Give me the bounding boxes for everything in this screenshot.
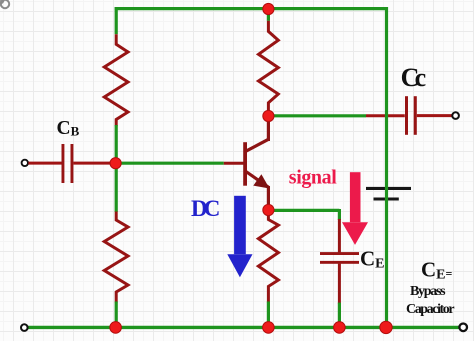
- wire: base node to transistor (green): [116, 162, 224, 165]
- capacitor CE: [320, 252, 359, 264]
- capacitor CB: [62, 144, 74, 183]
- node: ground rail left junction: [110, 322, 122, 334]
- node: top rail junction: [263, 3, 274, 14]
- signal arrow (crimson): [342, 172, 368, 245]
- node: ground rail right junction: [380, 321, 392, 333]
- svg-text:Capacitor: Capacitor: [406, 302, 455, 317]
- resistor RC (collector resistor): [259, 21, 279, 112]
- resistor R1 (upper bias resistor): [104, 34, 128, 126]
- resistor R2 (lower bias resistor): [104, 212, 128, 303]
- svg-text:DC: DC: [191, 196, 220, 221]
- wire: down to CE (green elbow): [338, 209, 341, 220]
- wire: left branch mid green: [115, 125, 118, 212]
- transistor Q1 (NPN): [245, 119, 268, 211]
- wire: right rail (green): [385, 7, 388, 327]
- wire: RE to ground rail (green): [267, 302, 270, 328]
- node: ground rail RE junction: [263, 322, 275, 334]
- wire: left branch upper green stub: [115, 7, 118, 34]
- wire: left branch lower green: [115, 302, 118, 328]
- node: emitter junction: [263, 204, 274, 215]
- wire: Cc to output terminal: [417, 114, 452, 117]
- wire: collector red lead to Cc: [366, 114, 405, 117]
- node: base junction: [110, 158, 121, 169]
- wire: top rail: [115, 7, 387, 10]
- svg-text:signal: signal: [289, 167, 337, 189]
- battery plates (DC supply): [366, 187, 411, 201]
- wire: middle branch top green stub: [267, 7, 270, 21]
- wire: emitter node horizontal (green): [268, 209, 339, 212]
- resistor RE (emitter resistor): [258, 214, 278, 303]
- input terminal: [22, 160, 28, 166]
- wire: base lead (dark red): [224, 162, 247, 165]
- wire: CE bottom lead (dark red): [338, 264, 341, 304]
- svg-text:Cc: Cc: [401, 63, 427, 92]
- DC arrow (blue): [227, 196, 252, 277]
- node: collector junction: [263, 110, 274, 121]
- node: ground rail CE junction: [334, 322, 346, 334]
- corner cursor glyph: [0, 0, 9, 8]
- wire: ground rail: [28, 326, 459, 329]
- wire: collector node to Cc (green): [268, 114, 366, 117]
- svg-text:Bypass: Bypass: [410, 284, 446, 299]
- output terminal (collector): [452, 112, 459, 119]
- wire: down to CE (dark red): [338, 219, 341, 252]
- ground-left terminal: [21, 324, 28, 331]
- wire: CE to ground rail (green): [338, 303, 341, 328]
- capacitor Cc: [405, 96, 417, 135]
- transistor emitter arrowhead: [253, 174, 269, 188]
- wire: CB to base node: [73, 162, 112, 165]
- wire: input red lead: [28, 162, 61, 165]
- ground-right terminal: [459, 324, 467, 332]
